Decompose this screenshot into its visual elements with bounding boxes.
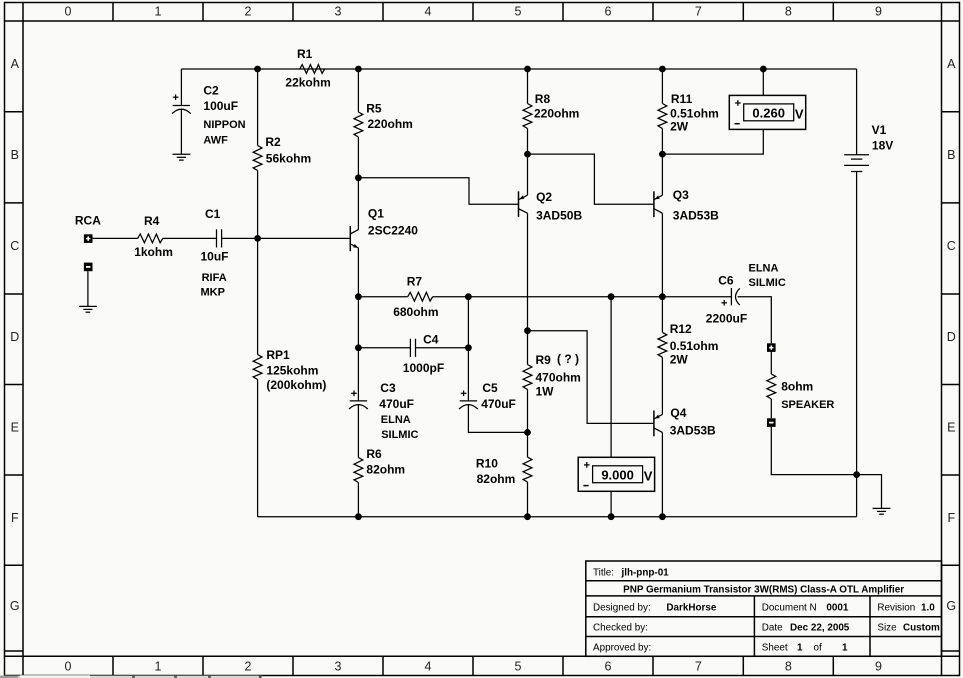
wire R9 lower lead (527, 390, 529, 433)
wire C5 top lead (467, 348, 469, 401)
wire speaker upper (770, 352, 772, 374)
svg-text:100uF: 100uF (203, 99, 238, 113)
junction C4/C5 node (465, 344, 472, 351)
wire C3 to R6 (357, 405, 359, 458)
junction battery/speaker/ground node (853, 471, 860, 478)
svg-text:( ? ): ( ? ) (557, 352, 579, 366)
wire C3 upper link (357, 297, 359, 348)
svg-text:R4: R4 (144, 214, 160, 228)
svg-text:4: 4 (425, 660, 432, 674)
wire R10 upper lead (527, 432, 529, 457)
svg-text:3: 3 (335, 660, 342, 674)
junction R9/R10/C5 node (524, 429, 531, 436)
wire battery minus lead (856, 172, 858, 517)
svg-text:C: C (10, 239, 19, 253)
svg-text:C5: C5 (482, 381, 498, 395)
svg-text:9.000: 9.000 (601, 468, 634, 483)
wire RP1 upper lead (257, 238, 259, 354)
svg-text:F: F (11, 511, 19, 525)
junction R11 top node (659, 66, 666, 73)
svg-text:2W: 2W (670, 120, 689, 134)
voltmeter 0.260V (729, 95, 805, 129)
svg-text:0.260: 0.260 (752, 106, 785, 121)
svg-text:125kohm: 125kohm (266, 364, 318, 378)
svg-text:RCA: RCA (75, 214, 101, 228)
resistor R10 (476, 457, 532, 487)
wire RCA shield to ground (87, 271, 89, 306)
svg-text:E: E (947, 421, 955, 435)
svg-text:220ohm: 220ohm (368, 117, 413, 131)
svg-text:DarkHorse: DarkHorse (666, 603, 716, 614)
svg-text:of: of (814, 642, 822, 653)
wire C1 to node (222, 237, 258, 239)
resistor RP1 (253, 348, 326, 392)
junction R8/Q2 emitter node (524, 151, 531, 158)
svg-text:SPEAKER: SPEAKER (781, 399, 834, 411)
junction meter tap node (608, 293, 615, 300)
wire C2 top lead (180, 69, 182, 105)
wire V+ top rail (181, 68, 856, 70)
svg-text:3AD53B: 3AD53B (670, 424, 716, 438)
wire R2 lower lead (257, 171, 259, 239)
svg-text:G: G (946, 599, 956, 613)
wire voltmeter V2 plus lead (762, 69, 764, 95)
wire Q3 collector lead (661, 213, 663, 297)
svg-text:C2: C2 (203, 84, 219, 98)
svg-text:R10: R10 (476, 457, 498, 471)
ground C2 (173, 154, 191, 160)
svg-text:C: C (947, 239, 956, 253)
svg-text:A: A (11, 57, 20, 71)
svg-text:10uF: 10uF (201, 250, 229, 264)
junction voltmeter top node (760, 66, 767, 73)
junction R11/Q3 emitter/meter node (659, 151, 666, 158)
svg-text:ELNA: ELNA (749, 263, 779, 275)
svg-text:R12: R12 (670, 322, 692, 336)
svg-text:SILMIC: SILMIC (381, 429, 418, 441)
svg-text:RIFA: RIFA (202, 272, 227, 284)
svg-text:Document N: Document N (762, 603, 817, 614)
wire Q2 base link (358, 178, 518, 204)
wire battery plus lead (856, 69, 858, 155)
wire C5 bottom link (468, 405, 527, 433)
svg-text:1: 1 (155, 660, 162, 674)
svg-text:1: 1 (155, 5, 162, 19)
svg-text:A: A (947, 57, 956, 71)
resistor speaker 8ohm (767, 374, 835, 411)
junction Q4 bottom (659, 513, 666, 520)
svg-text:R7: R7 (407, 275, 423, 289)
wire C5 upper link (467, 297, 469, 348)
svg-text:1000pF: 1000pF (403, 361, 444, 375)
svg-text:R11: R11 (671, 92, 693, 106)
svg-text:7: 7 (695, 5, 702, 19)
speaker plus terminal (767, 343, 776, 352)
wire C4 left lead (358, 347, 410, 349)
capacitor C5 (459, 381, 516, 411)
svg-text:V1: V1 (872, 123, 887, 137)
svg-text:MKP: MKP (201, 287, 225, 299)
svg-text:Approved by:: Approved by: (593, 642, 651, 653)
ground right (873, 508, 891, 514)
wire voltmeter V2 minus lead (662, 129, 763, 154)
resistor R6 (354, 447, 405, 483)
resistor R5 (354, 102, 413, 137)
junction R10 bottom (524, 513, 531, 520)
svg-text:1: 1 (797, 642, 803, 653)
resistor R4 (134, 214, 173, 259)
wire C6 to speaker (738, 297, 772, 344)
svg-text:C4: C4 (423, 332, 439, 346)
svg-text:0001: 0001 (826, 603, 848, 614)
junction Q2 collector/R9 node (524, 327, 531, 334)
wire output rail left (358, 296, 407, 298)
wire R11 lower lead (661, 129, 663, 155)
wire Q1 base (258, 237, 351, 239)
svg-text:0: 0 (65, 5, 72, 19)
svg-text:7: 7 (695, 660, 702, 674)
junction R1/R5 node (355, 66, 362, 73)
svg-text:6: 6 (605, 5, 612, 19)
wire Q1 emitter lead (357, 248, 359, 297)
svg-text:C6: C6 (718, 274, 734, 288)
svg-text:Date: Date (762, 622, 783, 633)
junction R8 top node (524, 66, 531, 73)
capacitor C4 (403, 332, 444, 375)
wire R2 upper lead (257, 69, 259, 146)
wire RP1 lower lead (257, 380, 259, 517)
svg-text:1.0: 1.0 (921, 603, 935, 614)
svg-text:Q3: Q3 (673, 188, 689, 202)
svg-text:V: V (795, 106, 804, 121)
wire R12 upper lead (661, 297, 663, 333)
capacitor C1 (201, 207, 229, 299)
wire Q2 emitter lead (527, 154, 529, 195)
svg-text:22kohm: 22kohm (285, 76, 330, 90)
speaker minus terminal (767, 418, 776, 427)
svg-text:R9: R9 (536, 353, 552, 367)
wire R12 to Q4 emitter (661, 357, 663, 414)
svg-text:Designed by:: Designed by: (593, 603, 651, 614)
svg-text:D: D (947, 330, 956, 344)
junction R5/Q1 collector/Q2 base node (355, 174, 362, 181)
svg-text:Title:: Title: (593, 567, 614, 578)
transistor Q3 (654, 188, 719, 223)
junction R12 top node (659, 293, 666, 300)
svg-text:F: F (947, 511, 955, 525)
transistor Q4 (654, 406, 716, 438)
svg-text:1: 1 (842, 642, 848, 653)
junction meter bottom (608, 513, 615, 520)
svg-text:470uF: 470uF (481, 397, 516, 411)
transistor Q1 (350, 207, 418, 252)
svg-text:R1: R1 (297, 47, 313, 61)
wire C2 bottom lead (180, 109, 182, 154)
wire Q1 collector lead (357, 178, 359, 230)
svg-text:680ohm: 680ohm (393, 305, 438, 319)
wire Q3 base link (528, 154, 654, 204)
svg-text:3AD53B: 3AD53B (673, 209, 719, 223)
capacitor C3 (349, 381, 419, 441)
svg-text:2: 2 (245, 660, 252, 674)
wire R5 upper lead (357, 69, 359, 112)
RCA input plus terminal (75, 214, 101, 243)
wire ground rail bottom (258, 516, 857, 518)
svg-text:(200kohm): (200kohm) (266, 378, 326, 392)
svg-text:56kohm: 56kohm (266, 151, 311, 165)
RCA minus terminal (84, 263, 93, 272)
wire R8 upper lead (527, 69, 529, 104)
svg-text:C3: C3 (380, 381, 396, 395)
wire Q3 emitter lead (661, 154, 663, 195)
svg-text:18V: 18V (872, 139, 893, 153)
svg-text:B: B (11, 148, 19, 162)
svg-text:1W: 1W (536, 385, 555, 399)
capacitor C6 (706, 263, 786, 326)
svg-text:8: 8 (785, 660, 792, 674)
svg-text:9: 9 (875, 5, 882, 19)
capacitor C2 (172, 84, 246, 147)
svg-text:Q4: Q4 (670, 406, 686, 420)
wire Q4 collector lead (661, 432, 663, 516)
svg-text:0: 0 (65, 660, 72, 674)
svg-text:Custom: Custom (903, 622, 940, 633)
svg-text:9: 9 (875, 660, 882, 674)
svg-text:5: 5 (515, 5, 522, 19)
wire meter V3 plus lead (610, 297, 612, 458)
svg-text:R5: R5 (366, 102, 382, 116)
svg-text:E: E (11, 421, 19, 435)
svg-text:1kohm: 1kohm (134, 245, 173, 259)
svg-text:D: D (10, 330, 19, 344)
wire Q2 collector lead (527, 213, 529, 331)
svg-text:Sheet: Sheet (762, 642, 788, 653)
node input/Q1 base junction (254, 235, 261, 242)
battery V1 (844, 123, 893, 172)
svg-text:8: 8 (785, 5, 792, 19)
svg-text:R8: R8 (535, 92, 551, 106)
svg-text:220ohm: 220ohm (534, 107, 579, 121)
voltmeter 9.000V (578, 457, 654, 491)
svg-text:2200uF: 2200uF (706, 311, 747, 325)
svg-text:6: 6 (605, 660, 612, 674)
svg-text:82ohm: 82ohm (366, 463, 405, 477)
svg-text:3: 3 (335, 5, 342, 19)
svg-text:C1: C1 (205, 207, 221, 221)
svg-text:R6: R6 (366, 447, 382, 461)
resistor R1 (285, 47, 330, 90)
svg-text:Revision: Revision (877, 603, 915, 614)
svg-text:Checked by:: Checked by: (593, 622, 648, 633)
svg-text:Q2: Q2 (536, 190, 552, 204)
svg-text:ELNA: ELNA (381, 414, 411, 426)
svg-text:470ohm: 470ohm (536, 371, 581, 385)
svg-text:PNP Germanium Transistor 3W(RM: PNP Germanium Transistor 3W(RMS) Class-A… (623, 584, 904, 595)
junction R1/R2/C2 node (254, 66, 261, 73)
wire R8 lower lead (527, 129, 529, 155)
ground RCA (79, 306, 97, 312)
junction C4 left node (355, 344, 362, 351)
svg-text:3AD50B: 3AD50B (536, 209, 582, 223)
wire R9 upper lead (527, 331, 529, 365)
wire R6 lower lead (357, 483, 359, 517)
svg-text:2: 2 (245, 5, 252, 19)
svg-text:SILMIC: SILMIC (749, 277, 786, 289)
svg-text:2SC2240: 2SC2240 (368, 224, 418, 238)
wire meter V3 minus lead (610, 491, 612, 517)
resistor R9 (523, 352, 581, 399)
junction R7/C4/C5 node (465, 293, 472, 300)
wire R11 upper lead (661, 69, 663, 104)
transistor Q2 (519, 190, 583, 223)
wire ground link (857, 475, 882, 509)
svg-text:NIPPON: NIPPON (203, 119, 245, 131)
svg-text:RP1: RP1 (266, 348, 290, 362)
svg-text:Dec 22, 2005: Dec 22, 2005 (790, 622, 850, 633)
svg-text:V: V (644, 468, 653, 483)
resistor R8 (523, 92, 579, 129)
svg-text:8ohm: 8ohm (781, 380, 813, 394)
svg-text:0.51ohm: 0.51ohm (670, 107, 719, 121)
junction Q1 emitter/R7 node (355, 293, 362, 300)
wire RCA to R4 (93, 237, 138, 239)
resistor R11 (658, 92, 719, 134)
svg-text:G: G (10, 599, 20, 613)
resistor R7 (393, 275, 438, 320)
svg-text:Q1: Q1 (368, 207, 384, 221)
resistor R2 (253, 135, 311, 171)
wire C3 top lead (357, 348, 359, 401)
svg-text:0.51ohm: 0.51ohm (670, 339, 719, 353)
svg-text:R2: R2 (265, 135, 281, 149)
wire R4 to C1 (163, 237, 217, 239)
svg-text:AWF: AWF (203, 135, 228, 147)
svg-text:2W: 2W (670, 353, 689, 367)
wire R10 lower lead (527, 482, 529, 517)
svg-text:B: B (947, 148, 955, 162)
junction R6 bottom (355, 513, 362, 520)
wire output rail (433, 296, 732, 298)
wire speaker return (771, 427, 856, 475)
wire R5 lower lead (357, 137, 359, 178)
svg-text:5: 5 (515, 660, 522, 674)
wire speaker lower (770, 399, 772, 418)
svg-text:4: 4 (425, 5, 432, 19)
svg-text:470uF: 470uF (379, 397, 414, 411)
wire Q4 base link (528, 331, 654, 424)
svg-text:jlh-pnp-01: jlh-pnp-01 (621, 567, 670, 578)
wire C4 right lead (416, 347, 469, 349)
resistor R12 (658, 322, 718, 367)
svg-text:Size: Size (877, 622, 897, 633)
svg-text:82ohm: 82ohm (477, 472, 516, 486)
